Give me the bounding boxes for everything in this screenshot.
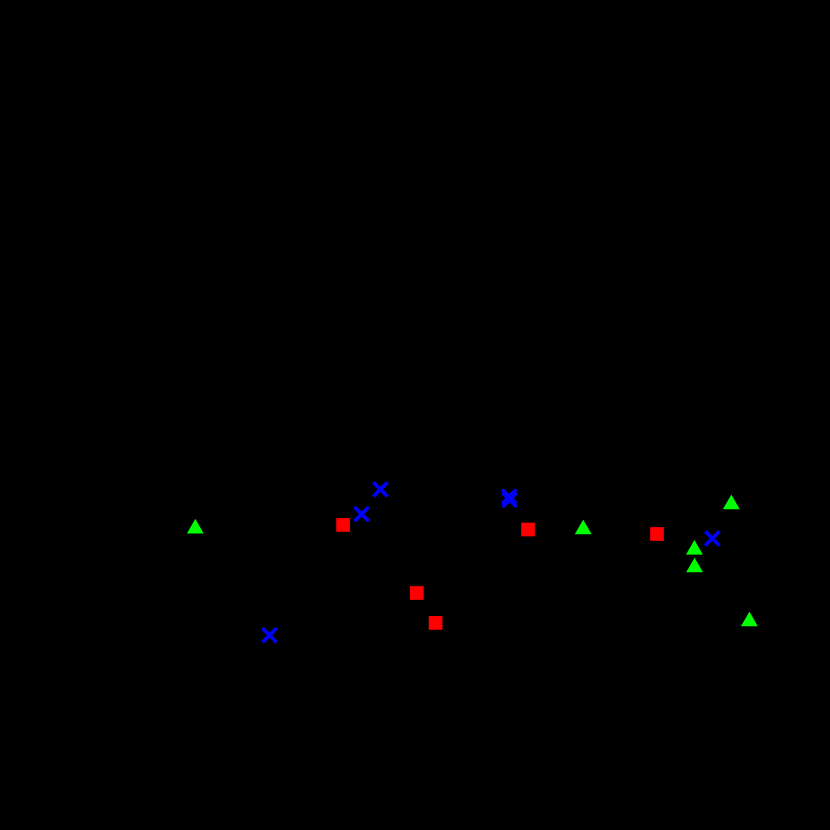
green triangle T5	[686, 558, 703, 573]
blue x X3a	[502, 490, 516, 504]
blue x X1	[373, 482, 387, 496]
blue x X4	[262, 628, 276, 642]
green triangle T1	[187, 519, 204, 534]
green triangle T2	[575, 520, 592, 535]
green triangle T4	[686, 540, 703, 555]
red square S3	[429, 616, 443, 630]
green triangle T3	[723, 495, 740, 510]
blue x X3b	[503, 493, 517, 507]
blue x X2	[355, 507, 369, 521]
red square S4	[521, 523, 535, 537]
red square S2	[410, 586, 424, 600]
blue x X5	[705, 531, 719, 545]
green triangle T6	[741, 612, 758, 627]
red square S5	[650, 527, 664, 541]
red square S1	[336, 518, 350, 532]
